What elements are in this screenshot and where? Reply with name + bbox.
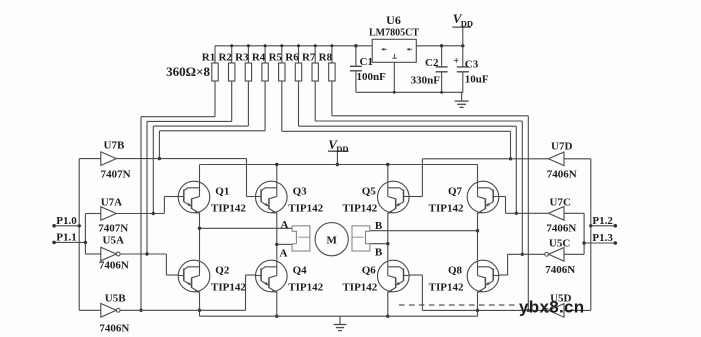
wire Q6 emitter xyxy=(386,292,389,318)
watermark dashed line xyxy=(399,304,517,306)
svg-text:R4: R4 xyxy=(252,51,266,63)
wire R7 route to right driver xyxy=(315,81,524,256)
svg-text:LM7805CT: LM7805CT xyxy=(369,28,419,39)
wire U5C output to Q8 base xyxy=(499,254,545,275)
resistor R5 xyxy=(269,44,285,81)
wire R5 route to right driver xyxy=(282,81,512,161)
svg-text:+: + xyxy=(453,56,459,67)
wire U5B output to Q4 base xyxy=(120,275,255,310)
wire R8 route to right driver xyxy=(332,81,530,312)
left inner rail P1.1 xyxy=(84,214,87,255)
wire R2 route to left driver xyxy=(145,81,231,256)
inverter U7D 7406N xyxy=(547,141,577,181)
bottom bus of regulator section xyxy=(356,91,463,94)
svg-text:7406N: 7406N xyxy=(547,169,577,181)
wire Q4 emitter xyxy=(275,292,278,318)
capacitor C2 330nF xyxy=(411,46,448,93)
wire Q1 collector xyxy=(199,165,201,183)
svg-text:C2: C2 xyxy=(425,57,439,69)
inverter U5B 7406N xyxy=(99,293,129,335)
svg-text:A: A xyxy=(280,248,288,260)
wire U5A output to Q2 base xyxy=(120,254,178,275)
wire R4 route to left driver xyxy=(158,81,265,160)
wire U6 output to VDD node xyxy=(416,44,464,47)
wire U5D input xyxy=(564,309,591,311)
transistor Q8 TIP142 xyxy=(429,260,499,293)
ground center symbol xyxy=(334,316,347,330)
connector A left motor terminal xyxy=(280,219,310,260)
svg-text:TIP142: TIP142 xyxy=(342,203,377,215)
transistor Q1 TIP142 xyxy=(178,181,246,214)
svg-text:Q5: Q5 xyxy=(362,186,377,198)
transistor Q3 TIP142 xyxy=(255,181,323,214)
svg-text:M: M xyxy=(327,235,338,247)
svg-text:P1.3: P1.3 xyxy=(592,232,613,244)
svg-text:Q3: Q3 xyxy=(293,186,308,198)
svg-text:R8: R8 xyxy=(319,51,333,63)
wire Q5 collector xyxy=(387,165,389,183)
motor M xyxy=(315,223,348,256)
svg-text:DD: DD xyxy=(336,144,348,154)
svg-text:330nF: 330nF xyxy=(411,75,441,87)
svg-text:U7C: U7C xyxy=(550,196,571,208)
wire U7D input xyxy=(564,158,591,160)
inverter U5C 7406N xyxy=(545,238,576,277)
wire motor terminal A bottom xyxy=(277,243,292,245)
wire R6 route to right driver xyxy=(299,81,519,215)
svg-text:Q1: Q1 xyxy=(215,186,229,198)
svg-text:7406N: 7406N xyxy=(545,264,575,276)
wire U5A input xyxy=(85,253,100,255)
svg-text:R1: R1 xyxy=(202,51,215,63)
node Q5-Q6 midpoint xyxy=(386,213,389,261)
svg-text:7406N: 7406N xyxy=(99,323,129,335)
port P1.0 xyxy=(52,215,79,228)
node Q3-Q4 midpoint xyxy=(275,213,278,261)
svg-text:TIP142: TIP142 xyxy=(429,203,464,215)
svg-text:TIP142: TIP142 xyxy=(342,282,377,294)
svg-text:R7: R7 xyxy=(302,51,316,63)
svg-text:U6: U6 xyxy=(386,13,401,27)
svg-text:DD: DD xyxy=(461,18,473,28)
inverter U5D 7406N xyxy=(545,292,572,317)
port P1.2 xyxy=(591,215,617,228)
svg-text:Q6: Q6 xyxy=(362,265,377,277)
svg-text:B: B xyxy=(375,220,383,232)
svg-text:100nF: 100nF xyxy=(357,71,387,83)
svg-text:U7B: U7B xyxy=(104,140,125,152)
svg-text:B: B xyxy=(375,246,383,258)
svg-text:ybx8.cn: ybx8.cn xyxy=(519,297,584,316)
wire U7C input xyxy=(564,212,584,214)
wire motor terminal B bottom xyxy=(370,243,388,245)
svg-text:TIP142: TIP142 xyxy=(211,282,246,294)
wire U7A output to Q1 base xyxy=(116,197,178,214)
svg-text:U7D: U7D xyxy=(551,141,572,153)
svg-text:R6: R6 xyxy=(285,51,299,63)
svg-text:Q4: Q4 xyxy=(293,265,308,277)
resistor R7 xyxy=(302,44,318,81)
resistor R1 xyxy=(202,46,218,81)
resistor R2 xyxy=(218,44,234,81)
wire U6 ground pin xyxy=(393,62,395,92)
connector B right motor terminal xyxy=(352,220,383,259)
wire U7D output to Q5 base xyxy=(409,159,548,197)
svg-text:U7A: U7A xyxy=(101,197,122,209)
capacitor C3 10uF polarized xyxy=(453,46,489,93)
resistor R4 xyxy=(252,44,268,81)
svg-text:10uF: 10uF xyxy=(465,74,489,86)
ground regulator section xyxy=(455,92,469,107)
svg-text:TIP142: TIP142 xyxy=(211,203,246,215)
port P1.1 xyxy=(52,232,85,245)
wire collector VDD rail xyxy=(200,163,478,166)
node A left bridge midpoint Q1-Q2 xyxy=(198,213,201,261)
wire U7A input xyxy=(85,213,100,215)
svg-text:TIP142: TIP142 xyxy=(288,282,323,294)
wire Q8 emitter xyxy=(476,292,479,316)
power VDD center rail xyxy=(328,137,349,166)
transistor Q5 TIP142 xyxy=(342,181,409,214)
svg-text:C1: C1 xyxy=(360,56,373,68)
right input rail P1.2 xyxy=(589,159,592,311)
svg-text:7406N: 7406N xyxy=(546,223,576,235)
svg-text:R2: R2 xyxy=(218,51,232,63)
svg-text:U5A: U5A xyxy=(103,235,124,247)
wire U5C input xyxy=(564,253,584,255)
transistor Q4 TIP142 xyxy=(255,260,323,293)
wire U7B output to Q3 base xyxy=(116,159,255,197)
wire Q2 emitter to ground rail xyxy=(198,292,201,316)
node B right bridge midpoint Q7-Q8 xyxy=(476,213,479,261)
wire Q3 collector xyxy=(276,165,278,183)
power VDD top right xyxy=(452,11,473,46)
svg-text:P1.0: P1.0 xyxy=(56,215,77,227)
svg-text:Q8: Q8 xyxy=(448,265,463,277)
svg-text:7406N: 7406N xyxy=(99,259,129,271)
svg-text:TIP142: TIP142 xyxy=(288,203,323,215)
left input rail P1.0 xyxy=(78,159,81,311)
buffer U7B 7407N xyxy=(101,140,131,181)
wire U7B input xyxy=(79,158,101,160)
ground rail bottom xyxy=(200,315,478,317)
svg-text:P1.1: P1.1 xyxy=(56,232,76,244)
buffer U7A 7407N xyxy=(98,197,128,235)
transistor Q6 TIP142 xyxy=(342,260,409,293)
svg-text:C3: C3 xyxy=(465,58,479,70)
svg-text:U5B: U5B xyxy=(105,293,126,305)
wire U5B input xyxy=(79,309,101,311)
svg-text:R3: R3 xyxy=(235,51,249,63)
svg-text:R5: R5 xyxy=(269,51,283,63)
top supply bus xyxy=(215,45,372,47)
inverter U7C 7406N xyxy=(546,196,576,234)
svg-text:TIP142: TIP142 xyxy=(429,282,464,294)
wire motor terminal A top xyxy=(200,227,293,229)
wire Q7 collector xyxy=(477,165,479,183)
transistor Q2 TIP142 xyxy=(178,260,246,293)
wire R1 route to left driver xyxy=(139,81,215,312)
wire R3 route to left driver xyxy=(152,81,249,215)
resistor R6 xyxy=(285,44,301,81)
svg-text:7407N: 7407N xyxy=(101,169,131,181)
wire motor terminal B top xyxy=(370,230,478,232)
svg-text:A: A xyxy=(281,219,289,231)
svg-text:Q2: Q2 xyxy=(215,265,230,277)
svg-text:7407N: 7407N xyxy=(98,223,128,235)
wire U5D output to Q6 base xyxy=(409,275,545,310)
svg-text:U5C: U5C xyxy=(549,238,570,250)
svg-text:Q7: Q7 xyxy=(448,186,463,198)
capacitor C1 100nF xyxy=(350,44,386,92)
transistor Q7 TIP142 xyxy=(429,181,499,214)
resistor R3 xyxy=(235,44,251,81)
right inner rail P1.3 xyxy=(582,213,585,254)
svg-text:P1.2: P1.2 xyxy=(592,215,613,227)
svg-text:360Ω×8: 360Ω×8 xyxy=(166,64,210,79)
resistor R8 xyxy=(319,44,335,81)
inverter U5A 7406N xyxy=(99,235,129,272)
port P1.3 xyxy=(584,232,617,245)
wire U7C output to Q7 base xyxy=(499,197,549,214)
voltage regulator U6 LM7805CT xyxy=(369,13,419,63)
